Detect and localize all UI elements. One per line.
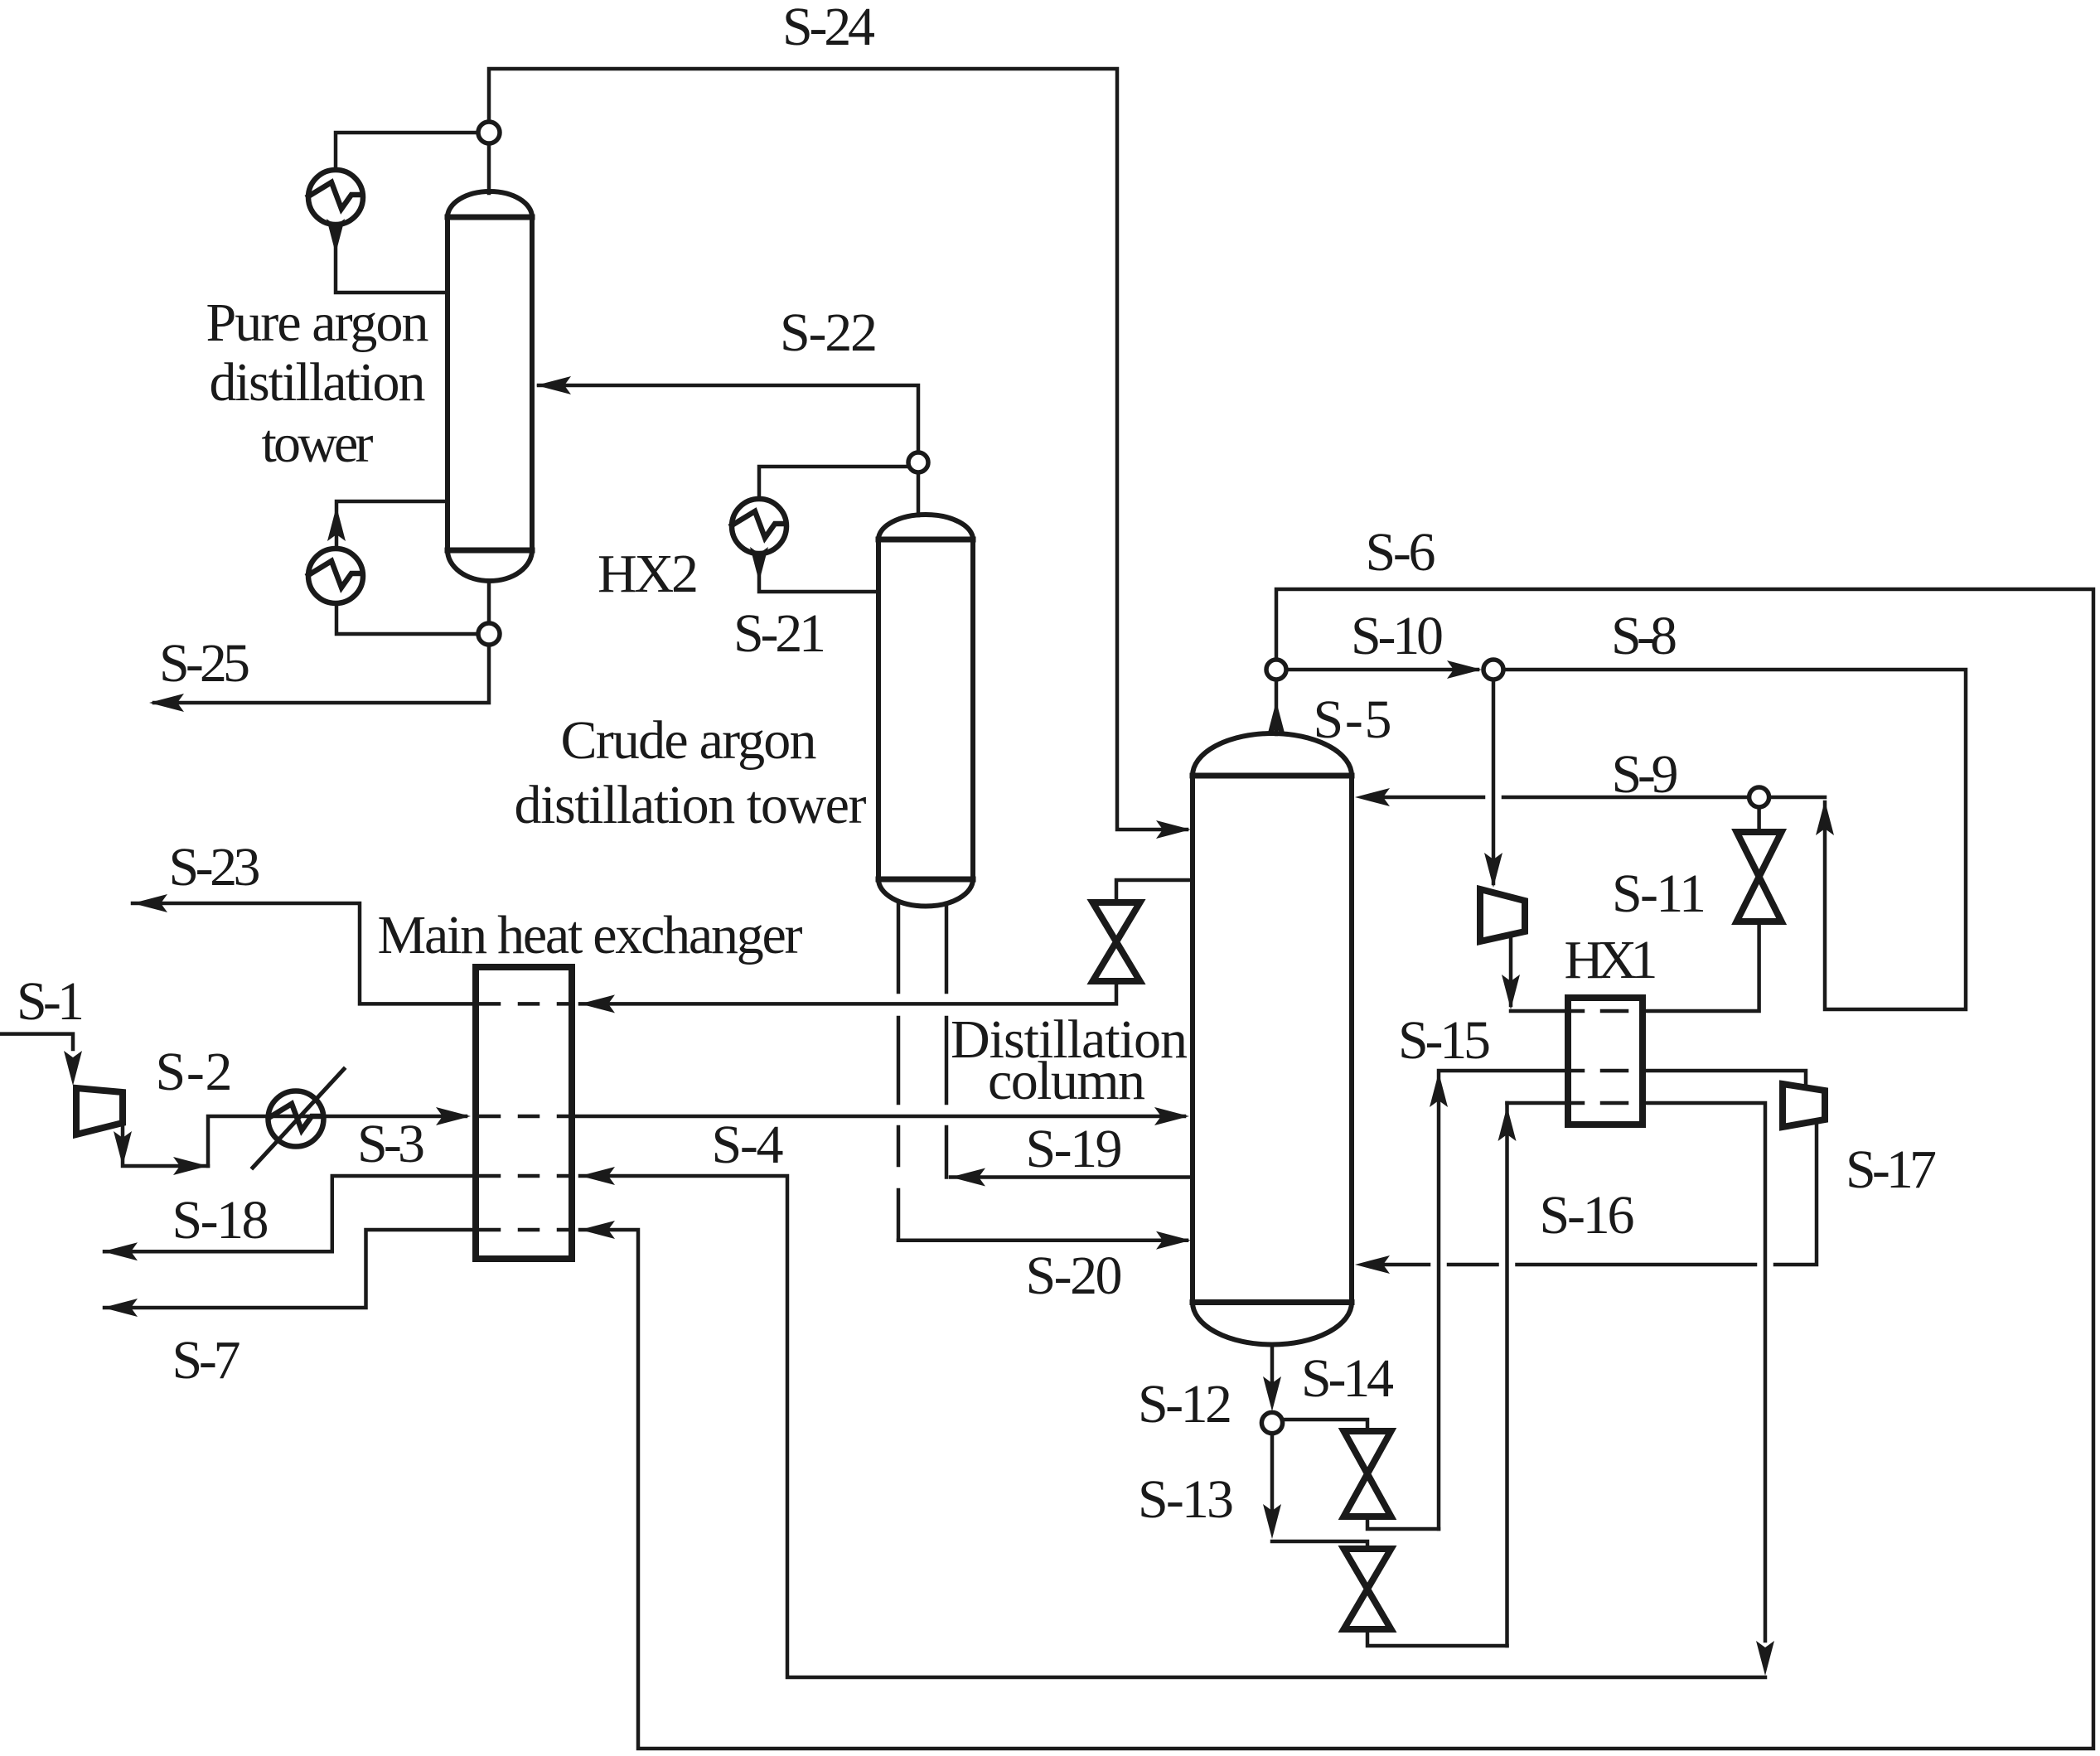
svg-text:S-20: S-20 — [1026, 1246, 1123, 1306]
svg-text:S-16: S-16 — [1540, 1185, 1635, 1246]
svg-text:S-14: S-14 — [1301, 1348, 1394, 1409]
svg-text:S-17: S-17 — [1846, 1139, 1937, 1200]
svg-text:S-23: S-23 — [169, 837, 261, 897]
svg-text:S-3: S-3 — [357, 1114, 425, 1174]
svg-text:S-1: S-1 — [17, 971, 85, 1032]
svg-text:S-10: S-10 — [1351, 606, 1444, 666]
svg-text:Pure argon: Pure argon — [206, 293, 429, 353]
svg-text:distillation tower: distillation tower — [515, 775, 867, 835]
svg-text:S-22: S-22 — [780, 302, 878, 363]
svg-text:S-5: S-5 — [1314, 689, 1392, 750]
svg-text:S-6: S-6 — [1366, 522, 1436, 583]
svg-text:S-9: S-9 — [1612, 744, 1679, 805]
svg-text:S-19: S-19 — [1026, 1119, 1123, 1179]
svg-text:S-13: S-13 — [1138, 1469, 1234, 1530]
svg-text:tower: tower — [262, 414, 374, 474]
svg-text:S-18: S-18 — [172, 1190, 269, 1250]
svg-text:S-4: S-4 — [712, 1115, 784, 1175]
svg-text:HX1: HX1 — [1565, 930, 1658, 990]
svg-text:S-15: S-15 — [1398, 1010, 1491, 1071]
svg-text:S-11: S-11 — [1612, 863, 1706, 924]
svg-text:S-7: S-7 — [172, 1330, 241, 1391]
svg-text:S-2: S-2 — [156, 1042, 233, 1102]
svg-text:Main heat exchanger: Main heat exchanger — [378, 905, 803, 965]
svg-text:S-21: S-21 — [733, 603, 826, 664]
svg-text:Crude argon: Crude argon — [561, 710, 817, 771]
svg-text:S-12: S-12 — [1138, 1374, 1232, 1434]
svg-text:S-25: S-25 — [159, 633, 250, 694]
svg-text:HX2: HX2 — [598, 544, 699, 604]
svg-text:column: column — [988, 1051, 1145, 1111]
svg-text:distillation: distillation — [210, 352, 426, 413]
svg-text:S-8: S-8 — [1611, 606, 1677, 666]
svg-text:S-24: S-24 — [782, 0, 875, 57]
